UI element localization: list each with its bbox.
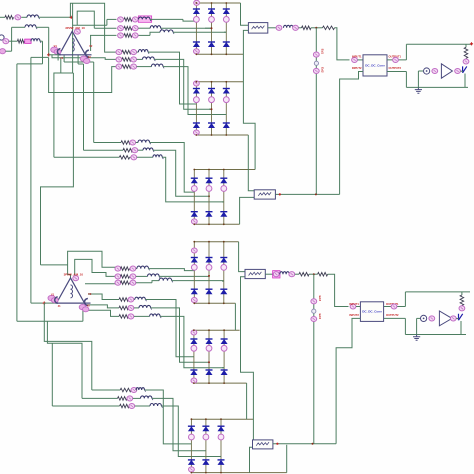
junction [193, 241, 195, 243]
wire to ground [417, 71, 419, 87]
ammeter bridge D leg 1 [191, 265, 197, 271]
wire b3 to bridge A [173, 31, 226, 33]
bridge B leg 1 wire [195, 82, 197, 135]
svg-text:#1: #1 [58, 304, 61, 308]
ammeter load 1 [463, 59, 469, 64]
wire through transformer T1 [72, 3, 74, 73]
wire phase C [17, 63, 43, 65]
svg-text:V1: V1 [51, 293, 55, 297]
wire c3 to bridge D [172, 280, 224, 282]
wire transformer T1 secondary lead [63, 55, 65, 62]
ammeter bridge B bottom [194, 130, 200, 135]
wire c6 to bridge E [160, 316, 224, 367]
inductor Ls3 [31, 39, 40, 41]
resistor Rd2 [323, 26, 335, 30]
wire voltmeter branch 1 [315, 28, 317, 195]
wire load box left [405, 44, 407, 60]
ammeter b2a [118, 26, 124, 31]
junction [211, 81, 213, 83]
ground G1 [415, 87, 422, 93]
diode E3 (upper) [221, 339, 228, 344]
junction [211, 134, 213, 136]
junction [225, 2, 227, 4]
wire phase B [31, 56, 49, 58]
wire bridge C- to filter F2 [240, 197, 255, 224]
ammeter input 1 [352, 57, 358, 62]
diode D2 (upper) [206, 258, 213, 263]
node marker Vd1 [314, 61, 318, 65]
wire b4 to bridge B [148, 52, 196, 104]
AC tap phase b into bridge B [209, 108, 212, 110]
junction [208, 302, 210, 304]
inductor c9 [150, 404, 161, 406]
junction DC3 / voltmeter [313, 273, 315, 275]
wire b7 [129, 142, 132, 144]
ground G2 [413, 335, 420, 341]
inductor b6 [151, 64, 163, 67]
bridge F leg 3 wire [220, 419, 222, 472]
wire converter input 2 to DC- [340, 72, 363, 195]
wire b9 [130, 156, 131, 158]
selected highlight [138, 16, 151, 22]
junction [223, 223, 225, 225]
wire filter F4 to bridge F- [250, 447, 253, 472]
ammeter bridge E leg 3 [221, 345, 227, 351]
wire secondary to branch c4 [88, 294, 119, 300]
ammeter bridge C leg 2 [206, 186, 212, 192]
wire to ground 2 [416, 318, 418, 334]
wire DC chain 2 lower [273, 443, 336, 445]
wire b3 [139, 34, 151, 36]
diode E2 (upper) [206, 339, 213, 344]
ammeter b5b [131, 57, 137, 62]
resistor b6 [122, 65, 131, 69]
AC tap phase a into bridge F [190, 443, 192, 445]
wire bridge D- to bridge E+ [234, 303, 236, 330]
bridge D leg 2 wire [208, 242, 210, 304]
resistor c5 [119, 306, 129, 310]
transformer T1 base extension [86, 54, 92, 56]
source Va [0, 35, 4, 40]
wire phase B to transformer T2 [31, 302, 44, 304]
wire b3 [131, 34, 133, 36]
buffer amplifier U4 [439, 311, 452, 326]
ammeter c3b [130, 280, 136, 285]
diode B1 (upper) [193, 89, 200, 94]
wire secondary to branch b1 [107, 18, 117, 20]
transformer T2 winding coil [71, 285, 73, 298]
diode E4 (lower) [190, 370, 197, 375]
ammeter DC3a [273, 272, 279, 277]
diode D1 (upper) [191, 258, 198, 263]
junction DC2 / voltmeter [315, 193, 317, 195]
ammeter b6a [116, 64, 122, 69]
wire b7 to bridge C [150, 143, 195, 193]
wire secondary to branch b3 [90, 35, 92, 51]
junction [208, 241, 210, 243]
wire c4 [127, 299, 130, 301]
wire load box 2 left [404, 318, 406, 334]
diode C4 (lower) [191, 212, 198, 217]
wire load box top [406, 43, 471, 45]
junction [220, 418, 222, 420]
bridge B leg 2 wire [211, 82, 213, 135]
bridge A leg 1 wire [195, 3, 197, 54]
bridge A leg 2 wire [211, 3, 213, 54]
wire [73, 24, 107, 26]
ammeter b2b [132, 26, 138, 31]
wire DC chain 1 [311, 27, 323, 29]
ammeter c2a [115, 274, 121, 279]
meter transformer T2 left corner [48, 295, 55, 301]
diode C6 (lower) [220, 212, 227, 217]
junction [193, 382, 195, 384]
wire c5 [127, 307, 130, 309]
ammeter c7b [131, 387, 137, 392]
wire b4 [130, 51, 132, 53]
wire secondary to branch c1 [68, 251, 117, 278]
inductor b4 [138, 50, 148, 53]
junction [196, 53, 198, 55]
meter transformer T1 left corner [51, 47, 58, 53]
inductor c7 [136, 388, 144, 390]
junction [208, 223, 210, 225]
diode bridge F bottom bus [191, 472, 286, 474]
svg-text:#2: #2 [87, 304, 90, 308]
svg-text:INPUT1: INPUT1 [349, 302, 359, 306]
inductor c1 [137, 266, 149, 269]
wire phase A to lower transformer [41, 73, 74, 265]
inductor b1 [139, 17, 150, 19]
wire c2 [129, 275, 131, 277]
ammeter c9b [129, 403, 135, 408]
ammeter bridge F leg 1 [189, 434, 195, 440]
resistor c2 [120, 275, 129, 279]
wire b2 [131, 27, 133, 29]
wire b5 [137, 58, 143, 60]
wire output 1 lower [384, 306, 405, 308]
filter F3 glyph [249, 272, 262, 276]
AC tap phase a into bridge A [195, 20, 197, 22]
junction [220, 472, 222, 474]
wire phase B [48, 27, 50, 55]
wire secondary to branch b9 [54, 58, 61, 158]
meter transformer T1 right corner [80, 56, 87, 61]
diode E5 (lower) [206, 370, 213, 375]
bridge D leg 1 wire [193, 242, 195, 304]
ammeter DC1a [276, 25, 282, 30]
junction DC1 / voltmeter [315, 27, 317, 29]
svg-text:Ed3: Ed3 [318, 296, 322, 302]
junction [196, 134, 198, 136]
wire secondary to branch b8 [83, 64, 85, 150]
junction b8 tap [208, 195, 210, 197]
transformer T2 left corner winding [55, 297, 58, 303]
wire c3 [152, 281, 159, 283]
wire c7 [92, 389, 120, 391]
wire DC chain 1 [268, 27, 276, 29]
node marker Vd2 [312, 309, 316, 313]
source Vc [0, 49, 6, 54]
wire load box 2 top [405, 291, 470, 293]
wire buffer input [418, 70, 423, 72]
AC tap phase b into bridge E [208, 361, 210, 363]
diode F1 (upper) [188, 426, 195, 431]
wire phase A to transformer T2 apex [41, 264, 68, 266]
wire b5 to bridge B [154, 59, 211, 109]
wire b8 [84, 149, 124, 151]
svg-text:INPUT2: INPUT2 [349, 313, 359, 317]
meter gate 1a [432, 68, 438, 73]
svg-text:OUTPUT2: OUTPUT2 [389, 66, 402, 70]
diode bridge A top bus [196, 2, 240, 4]
wire bridge B- to filter F2 [248, 135, 254, 191]
diode B5 (lower) [208, 123, 215, 128]
ammeter b9b [131, 155, 137, 160]
wire secondary to branch c6 [83, 310, 119, 316]
wire c3 [129, 282, 131, 284]
junction [205, 418, 207, 420]
AC tap phase b into bridge A [205, 27, 212, 29]
wire secondary to branch c2 [75, 259, 117, 276]
AC tap phase a into bridge C [193, 191, 195, 193]
wire b3 [150, 32, 160, 35]
ammeter b5a [116, 57, 122, 62]
AC tap phase c into bridge B [224, 114, 226, 116]
bridge F leg 1 wire [190, 419, 192, 472]
junction DC4 / voltmeter [312, 443, 314, 445]
meter gate 1b [455, 68, 461, 73]
inductor c5 [139, 305, 151, 308]
diode E1 (upper) [190, 339, 197, 344]
ammeter bridge B leg 3 [223, 97, 229, 103]
junction [211, 2, 213, 4]
wire phase B [36, 26, 49, 28]
ammeter bridge D leg 3 [221, 265, 227, 271]
ammeter bridge E leg 2 [206, 345, 212, 351]
wire secondary to branch c8 [47, 321, 82, 398]
AC tap phase c into bridge D [222, 280, 224, 282]
filter F1 glyph [252, 26, 265, 30]
meter transformer T2 right corner [79, 304, 86, 309]
inductor Ls2 [25, 25, 36, 28]
ammeter bridge B leg 2 [209, 97, 215, 103]
wire c7 [135, 389, 138, 391]
resistor b2 [124, 26, 132, 30]
bridge F leg 2 wire [205, 419, 207, 472]
inductor c6 [150, 314, 161, 317]
wire filter F3 chain to filter F4 [241, 277, 254, 444]
resistor b4 [122, 50, 131, 54]
3-phase transformer T2 delta winding [57, 278, 85, 303]
svg-text:V2: V2 [88, 292, 92, 296]
diode A5 (lower) [208, 42, 215, 47]
filter F4 glyph [256, 442, 269, 446]
node B2 [43, 302, 46, 305]
junction [223, 302, 225, 304]
ammeter b1b [132, 17, 138, 22]
wire phase B to lower system [30, 57, 32, 303]
wire DC+ to converter input 1 [335, 28, 350, 60]
wire bridge F- to DC chain 2 [286, 445, 288, 473]
ammeter output 1 [393, 57, 399, 62]
ammeter bridge B leg 1 [194, 97, 200, 103]
junction [193, 302, 195, 304]
svg-text:INPUT1: INPUT1 [352, 54, 362, 58]
ammeter bridge A bottom [194, 49, 200, 54]
diode D6 (lower) [220, 289, 227, 294]
svg-text:OUTPUT2: OUTPUT2 [386, 313, 399, 317]
wire c1 to bridge D [149, 269, 195, 271]
junction [208, 382, 210, 384]
ammeter bridge D leg 2 [206, 265, 212, 271]
junction b2 tap [211, 27, 213, 29]
svg-text:#2: #2 [88, 55, 91, 59]
wire [356, 306, 360, 308]
wire b9 [54, 156, 119, 158]
diode A1 (upper) [193, 9, 200, 14]
resistor b8 [123, 148, 133, 152]
wire c7 to bridge F [145, 390, 192, 444]
node load+ [470, 42, 473, 45]
svg-text:3P2W_AM_10: 3P2W_AM_10 [64, 273, 84, 277]
wire secondary to branch b1 [106, 19, 108, 25]
ammeter output 1 lower [391, 304, 397, 309]
wire c8 to bridge F [152, 398, 206, 450]
wire b8 [131, 149, 134, 151]
wire [54, 72, 74, 74]
junction [193, 169, 195, 171]
inductor b3 [160, 30, 173, 32]
wire output 2 [387, 71, 406, 73]
wire DC chain 2 [275, 193, 339, 195]
inductor b2 [150, 26, 161, 29]
svg-text:DC_DC_Conv: DC_DC_Conv [365, 64, 385, 68]
junction bridge B leg 2 [211, 108, 213, 110]
converter block U3 [360, 302, 383, 322]
wire transformer T2 base [44, 302, 56, 304]
wire secondary T2 right corner [82, 310, 84, 321]
junction [223, 382, 225, 384]
wire voltmeter branch 2 [313, 274, 315, 444]
wire b2 [138, 27, 150, 29]
svg-text:DC_DC_Conv: DC_DC_Conv [362, 310, 382, 314]
wire b8 to bridge C [153, 150, 209, 196]
wire c9 [135, 405, 150, 407]
wire gate 2 [456, 317, 459, 319]
svg-text:V2: V2 [89, 44, 93, 48]
svg-text:3P2W_AM_10: 3P2W_AM_10 [65, 26, 85, 30]
wire phase C [42, 41, 44, 64]
wire c3 [136, 282, 152, 284]
wire converter 2 input 2 to DC- [336, 318, 360, 443]
resistor Rload2 [460, 295, 464, 306]
wire phase C [9, 40, 18, 42]
ammeter bridge E top [191, 330, 197, 335]
diode bridge D top bus [194, 241, 238, 243]
wire b5 [130, 58, 132, 60]
wire b2 to bridge A [161, 27, 212, 29]
resistor c1 [120, 267, 129, 271]
junction [225, 134, 227, 136]
diode bridge C top bus [194, 169, 255, 171]
ammeter b6b [131, 64, 137, 69]
diode B3 (upper) [223, 89, 230, 94]
ammeter c3a [115, 280, 121, 285]
transformer T1 right corner winding [85, 50, 89, 57]
transformer T2 right corner winding [84, 299, 88, 306]
wire b6 [137, 66, 152, 68]
resistor b5 [122, 58, 131, 62]
bridge A leg 3 wire [225, 3, 227, 54]
diode F2 (upper) [202, 426, 209, 431]
wire c1 [129, 268, 131, 270]
wire DC+ to converter 2 input 1 [328, 274, 349, 306]
diode F6 (lower) [218, 460, 225, 465]
inductor c8 [141, 396, 152, 399]
wire bridge A+ to filter F1 [241, 3, 249, 25]
ammeter b1a [118, 17, 124, 22]
wire output 2 lower [384, 317, 405, 319]
diode C3 (upper) [220, 178, 227, 183]
wire load box left [405, 72, 407, 88]
wire transformer T1 secondary lead [77, 55, 79, 64]
node A [70, 16, 73, 19]
diode bridge A bottom bus [196, 53, 243, 55]
wire switch to rail [464, 74, 466, 88]
wire c9 to bridge F [161, 406, 221, 457]
wire transformer T1 base [49, 54, 60, 56]
ammeter b7b [130, 140, 136, 145]
wire b7 [136, 142, 138, 144]
wire secondary to branch c7 [44, 303, 92, 390]
bridge C leg 1 wire [193, 170, 195, 225]
junction [225, 81, 227, 83]
bridge C leg 2 wire [208, 170, 210, 225]
wire c4 [133, 299, 136, 301]
wire c8 [82, 397, 118, 399]
wire c5 [134, 307, 139, 309]
junction [225, 53, 227, 55]
diode C5 (lower) [206, 212, 213, 217]
wire secondary to branch b6 [49, 58, 117, 93]
resistor b3 [124, 34, 132, 38]
AC tap phase b into bridge F [205, 450, 207, 452]
resistor b1 [124, 18, 132, 22]
diode bridge C bottom bus [194, 223, 239, 225]
inductor b5 [143, 57, 155, 60]
ammeter bridge E leg 1 [191, 345, 197, 351]
ammeter bridge D top [191, 248, 197, 253]
diode F5 (lower) [202, 460, 209, 465]
wire load box 2 bottom [405, 334, 466, 336]
ammeter bridge D bottom [191, 298, 197, 303]
ammeter bridge C leg 3 [221, 186, 227, 192]
ammeter bridge C leg 1 [191, 186, 197, 192]
AC tap phase c into bridge E [222, 367, 224, 369]
converter block U1 [363, 55, 387, 76]
junction [191, 472, 193, 474]
inductor b8 [143, 148, 153, 150]
wire b1 [131, 18, 133, 20]
diode B2 (upper) [208, 89, 215, 94]
inductor b9 [153, 155, 162, 158]
ammeter bridge A top [194, 0, 200, 5]
wire phase A [39, 16, 72, 18]
inductor c3 [159, 278, 172, 281]
wire secondary to branch c3 [85, 283, 117, 285]
ammeter bridge A leg 2 [209, 17, 215, 23]
